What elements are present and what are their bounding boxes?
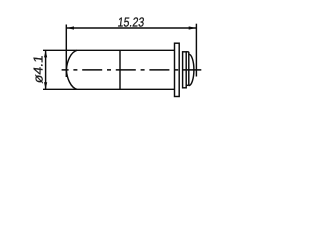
arrowhead right of 15.23 dimension <box>189 26 197 29</box>
svg-text:15.23: 15.23 <box>117 14 145 29</box>
sleeve-to-tip bottom connector <box>186 84 189 86</box>
dimension extension line left (bulb tip) <box>65 25 67 78</box>
dimension extension line right (base tip) <box>195 24 197 77</box>
arrowhead bottom of diameter dimension <box>44 82 47 89</box>
solder tip dome arc <box>189 54 194 85</box>
lamp bulb bottom edge with extension line <box>43 88 175 90</box>
dimension line 15.23 <box>66 27 196 29</box>
flange ring <box>175 43 180 96</box>
bulb-base junction line <box>119 50 121 89</box>
centerline dash-dot <box>62 69 202 71</box>
lamp bulb top edge with extension line <box>43 49 175 51</box>
arrowhead left of 15.23 dimension <box>67 26 75 29</box>
sleeve-to-tip top connector <box>186 51 189 53</box>
bulb rounded tip arc <box>66 50 77 89</box>
base sleeve <box>183 52 187 88</box>
arrowhead top of diameter dimension <box>44 50 47 57</box>
svg-text:ø4.1: ø4.1 <box>31 54 46 84</box>
tip chord line <box>188 52 190 86</box>
diameter dimension line <box>45 50 47 89</box>
